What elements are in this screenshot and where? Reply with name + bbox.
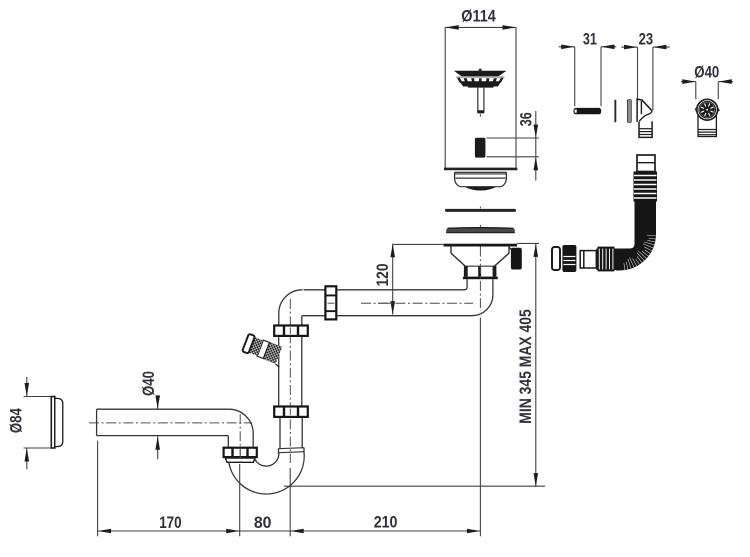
centerline stub left of 120 line bbox=[378, 302, 393, 304]
extension line trap outlet center down bbox=[239, 464, 241, 536]
overflow port bbox=[511, 248, 522, 270]
extension line from flange to MIN/MAX dim bbox=[517, 242, 539, 244]
tailpipe walls bbox=[466, 279, 468, 287]
wall pipe elbow inner corner bbox=[227, 436, 229, 447]
hose white fitting bbox=[580, 251, 596, 268]
socket rim lines bbox=[279, 448, 305, 449]
U-bend inner arc bbox=[254, 454, 279, 467]
bottom dimension line bbox=[98, 530, 481, 532]
svg-text:23: 23 bbox=[639, 30, 654, 49]
dimension 23 extension lines bbox=[637, 47, 639, 98]
svg-text:Ø40: Ø40 bbox=[139, 371, 158, 396]
hose top cuff bbox=[637, 155, 655, 172]
black connector tube bbox=[574, 108, 602, 114]
center tick above gasket bbox=[479, 207, 481, 209]
dimension 31 extension lines bbox=[574, 47, 576, 106]
hose body elbow bbox=[616, 201, 656, 271]
overflow elbow piece bbox=[637, 99, 652, 137]
extension line strainer center down to dims bbox=[479, 318, 481, 537]
svg-text:Ø84: Ø84 bbox=[7, 408, 26, 433]
center tick below stem bbox=[479, 114, 481, 116]
gray washer bbox=[627, 100, 631, 123]
strainer outlet nut bbox=[464, 266, 497, 276]
extension line from flange to 120 dim bbox=[393, 243, 444, 245]
dimension 120 line bbox=[392, 244, 394, 315]
overflow rosette body cylinder bbox=[698, 114, 716, 137]
left elbow outer arc bbox=[279, 290, 303, 325]
dimension Ø84 line bbox=[26, 377, 28, 397]
svg-text:31: 31 bbox=[583, 29, 597, 48]
basket strainer knob bbox=[479, 69, 482, 71]
extension line trap inlet center down bbox=[289, 468, 291, 536]
hose black nut bbox=[562, 245, 576, 272]
svg-text:Ø114: Ø114 bbox=[461, 7, 496, 26]
hose corrugated neck bbox=[634, 172, 658, 202]
horizontal run centerline bbox=[361, 302, 473, 304]
elbow under strainer: inner corner bbox=[303, 287, 467, 290]
dimension Ø84 extension lines bbox=[24, 396, 52, 398]
min/max dimension line bbox=[535, 243, 537, 486]
strainer stem cap bbox=[477, 110, 484, 113]
trap inlet centerline bbox=[289, 299, 291, 463]
dimension Ø114 line bbox=[445, 26, 516, 28]
nut bottom of trap inlet bbox=[273, 406, 309, 418]
extension line right (sink wall) bbox=[515, 27, 517, 168]
U-bend outer arc bbox=[229, 451, 304, 494]
oblique corrugated connector bbox=[242, 334, 287, 367]
nut on horizontal run bbox=[324, 285, 337, 320]
flat gasket bbox=[445, 209, 516, 212]
svg-text:Ø40: Ø40 bbox=[694, 63, 719, 82]
bottom dimension arrows bbox=[98, 529, 112, 534]
wall pipe centerline bbox=[89, 422, 252, 424]
profile gasket bbox=[446, 228, 515, 233]
dimension Ø40 line lower bbox=[157, 436, 159, 459]
tailpipe centerline bbox=[479, 247, 481, 312]
dimension 23 line + arrows (outside) bbox=[621, 46, 637, 48]
svg-text:80: 80 bbox=[254, 513, 272, 532]
basket strainer lower band bbox=[459, 81, 501, 86]
strainer stem bbox=[478, 88, 484, 111]
basket strainer bottom cap bbox=[468, 87, 493, 88]
upper strainer bowl bbox=[455, 172, 507, 186]
hose horizontal ribbed section bbox=[596, 247, 616, 272]
svg-text:MIN 345 MAX 405: MIN 345 MAX 405 bbox=[516, 309, 535, 424]
strainer outlet flange bbox=[463, 277, 498, 280]
rubber plug bbox=[475, 138, 486, 158]
wall pipe top edge bbox=[97, 408, 229, 410]
trap outlet centerline bbox=[239, 414, 241, 464]
trap outlet nut bbox=[223, 447, 258, 458]
trap inlet pipe walls (lower) bbox=[279, 418, 281, 449]
wall pipe bottom edge bbox=[97, 435, 229, 437]
wall pipe elbow outer arc bbox=[229, 409, 253, 447]
basket strainer gray underline bbox=[456, 76, 505, 78]
extension line wall pipe end bbox=[97, 441, 99, 537]
trap inlet pipe walls (upper) bbox=[278, 337, 280, 406]
nut top of trap inlet bbox=[273, 325, 309, 337]
lower strainer flange bbox=[444, 244, 517, 247]
left elbow inner corner bbox=[301, 316, 303, 325]
dimension 31 line + arrows (outside) bbox=[559, 46, 575, 48]
dimension Ø40 extension lines bbox=[695, 82, 697, 99]
dimension Ø40 line upper bbox=[157, 398, 159, 409]
thin washer bbox=[614, 100, 616, 123]
svg-text:210: 210 bbox=[374, 513, 398, 532]
lower strainer body funnel bbox=[451, 247, 512, 267]
min/max bottom extension line bbox=[284, 485, 545, 487]
elbow under strainer: outer arc bbox=[302, 295, 493, 316]
dimension 36 line bbox=[535, 111, 537, 181]
socket walls bbox=[278, 448, 280, 454]
basket strainer spokes bbox=[457, 78, 504, 84]
dimension Ø114 arrows bbox=[445, 25, 459, 30]
dimension Ø40 line + arrows (outside) bbox=[681, 81, 696, 83]
svg-text:120: 120 bbox=[373, 264, 392, 287]
svg-text:36: 36 bbox=[516, 112, 535, 126]
centerline dashes across nut windows bbox=[240, 303, 334, 455]
hose seal washer bbox=[552, 247, 560, 270]
hose elbow highlight hatch bbox=[624, 235, 656, 270]
overflow rosette face bbox=[695, 99, 719, 120]
sink surface line bbox=[444, 168, 517, 171]
extension line left (sink wall) bbox=[444, 27, 446, 168]
rosette body bbox=[55, 398, 63, 446]
upper bowl rubber seal bbox=[465, 187, 497, 191]
basket strainer plug rim bbox=[454, 71, 507, 77]
svg-text:170: 170 bbox=[159, 513, 181, 532]
dimension 36 arrows bbox=[534, 125, 539, 139]
dimension 36 extension lines bbox=[487, 137, 539, 139]
trap outlet flange bbox=[225, 458, 255, 462]
wall pipe end cap bbox=[96, 409, 98, 435]
rosette plate bbox=[51, 397, 55, 449]
